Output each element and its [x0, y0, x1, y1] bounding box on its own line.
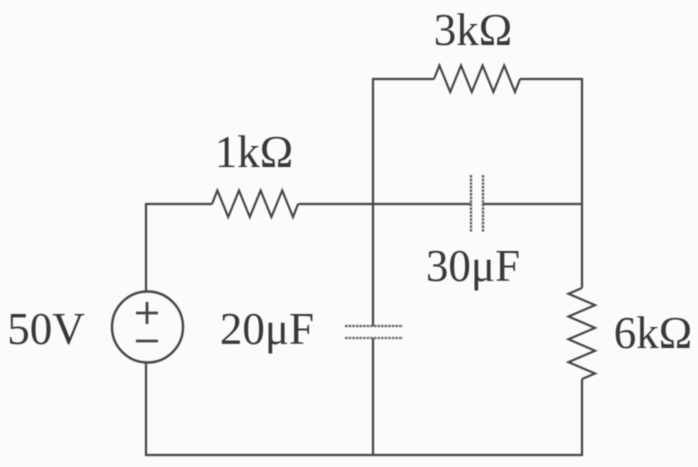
wire from middle node to 30μF	[373, 203, 471, 205]
wire from 30μF to right branch	[483, 203, 583, 205]
capacitor 20μF	[345, 326, 403, 338]
svg-text:30μF: 30μF	[426, 241, 520, 291]
svg-text:1kΩ: 1kΩ	[215, 127, 293, 177]
capacitor 30μF	[471, 175, 483, 232]
svg-text:6kΩ: 6kΩ	[614, 308, 692, 358]
wire right vertical upper	[581, 78, 583, 288]
svg-text:3kΩ: 3kΩ	[434, 5, 512, 55]
resistor 3kΩ	[434, 66, 520, 93]
wire bottom	[145, 454, 583, 456]
wire top-right lead	[520, 78, 583, 80]
wire top-left lead	[372, 78, 434, 80]
voltage source V1 50V	[112, 292, 183, 363]
wire middle vertical upper	[372, 78, 374, 326]
wire from 1kΩ to middle node	[298, 203, 374, 205]
wire left horizontal lead	[146, 203, 212, 205]
svg-text:50V: 50V	[7, 304, 85, 354]
resistor 1kΩ	[212, 191, 298, 218]
wire middle vertical lower	[372, 338, 374, 456]
wire right vertical lower	[581, 379, 583, 456]
resistor 6kΩ	[569, 288, 596, 379]
wire left vertical lower	[145, 362, 147, 456]
wire left vertical upper	[145, 203, 147, 292]
svg-text:20μF: 20μF	[220, 304, 314, 354]
